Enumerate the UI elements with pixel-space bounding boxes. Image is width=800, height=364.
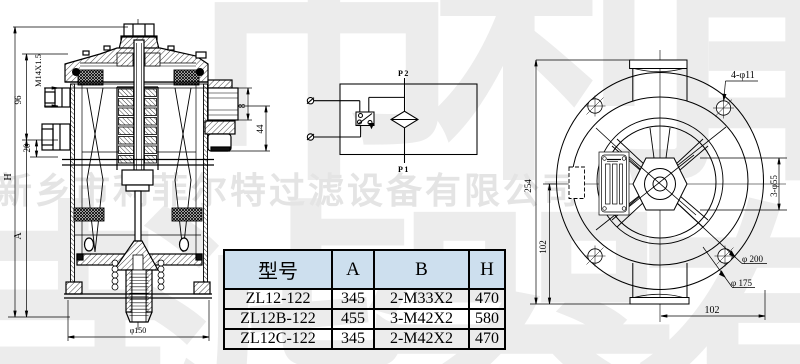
dim 254 [536,59,629,61]
watermark giant row top [175,0,800,239]
hub hexagon [633,158,687,210]
centerline [137,19,139,330]
3-phi55 [700,157,787,159]
bottom tab [632,263,634,298]
spokes [612,128,708,227]
svg-text:44: 44 [255,124,265,134]
centerlines [659,50,661,322]
filter pleats right [175,88,191,252]
svg-text:φ 175: φ 175 [731,278,752,288]
cap screws [83,51,89,55]
svg-text:M14X1.5: M14X1.5 [33,54,43,87]
dim 102 bottom [764,290,766,320]
left pad [569,167,585,199]
lower rod [135,191,141,241]
shell bottom [66,282,82,294]
valve square [356,112,374,126]
outlet tube [126,270,132,312]
bolt hole top-right [716,101,730,115]
svg-text:20: 20 [22,143,32,153]
cone [114,241,158,270]
bolt holes [585,96,736,267]
center rod [134,40,144,190]
filter diamond [391,111,418,128]
svg-text:102: 102 [705,305,720,316]
long diagonals [596,128,742,264]
svg-text:φ 200: φ 200 [742,254,763,264]
gland (hatched) [118,37,160,53]
mid circle [572,97,748,265]
hex bolt [121,24,157,40]
inner circle [604,126,716,238]
ellipse holes [85,238,94,251]
watermark medium row [0,162,581,214]
svg-text:4-φ11: 4-φ11 [731,70,755,81]
svg-text:254: 254 [523,179,533,193]
bolt hole bottom-right [718,249,732,263]
M14 leaders [44,87,58,89]
nameplate [599,152,629,215]
cap cavity [80,63,196,82]
dim chain 96 / A [26,54,28,317]
element top caps (dark) [78,70,103,85]
svg-text:96: 96 [13,95,23,105]
dim 20 [36,140,38,157]
dim 102 left [549,184,551,304]
svg-text:φ150: φ150 [130,326,147,335]
P2 line [404,78,406,112]
port circles [307,98,313,104]
4-phi11 leader [726,80,759,82]
shell walls [71,84,75,294]
bolt hole top-left [588,99,602,113]
svg-text:102: 102 [538,240,548,254]
gland shoulders [117,53,133,66]
P1 line [404,128,406,163]
clamp ring lines [62,159,214,161]
right flange ports [208,80,232,88]
svg-text:P2: P2 [398,69,410,78]
tube bottom steps [122,170,153,185]
bolt hole bottom-left [588,249,602,263]
svg-text:H: H [3,173,14,180]
dim phi150 [67,300,69,341]
svg-text:8: 8 [237,103,247,108]
watermark giant row bottom [0,108,800,364]
springs [112,260,164,290]
dim H [13,26,128,28]
element bottom caps (dark) [74,208,104,221]
filter pleats left [87,88,103,252]
cap dome (hatched) [65,48,208,82]
left port M14 [45,88,70,107]
dim 8 right [238,87,252,89]
svg-text:3-φ55: 3-φ55 [769,175,779,197]
tube blocks [119,89,157,163]
svg-text:P1: P1 [398,165,410,174]
phi175 leader [703,247,732,287]
spec table [223,249,506,350]
bottom plate [77,254,202,265]
top tab [630,60,687,69]
o-ring seals [73,69,80,76]
symbol box [340,84,477,155]
outer circle [557,73,764,290]
left lower port [42,124,70,150]
svg-text:A: A [13,232,24,240]
dim 44 right [238,105,270,107]
center tube [116,87,118,170]
wires [314,100,360,102]
